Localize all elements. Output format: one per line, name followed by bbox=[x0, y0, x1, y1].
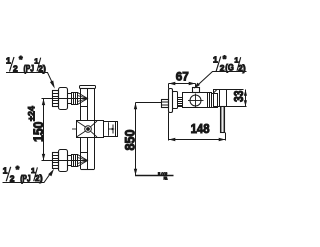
side view: lever handle bar bbox=[221, 107, 225, 133]
top cap slab bbox=[80, 86, 96, 89]
label PJ bottom-left bbox=[3, 164, 55, 183]
rings bbox=[72, 155, 78, 167]
front view: bottom inlet fitting bbox=[53, 150, 88, 172]
rings bbox=[72, 93, 78, 105]
label G top-right bbox=[194, 54, 247, 89]
dimension 150±24 vertical bbox=[27, 99, 88, 161]
side view: wall nut bbox=[162, 100, 169, 108]
front view: handle knob bbox=[104, 122, 118, 137]
svg-text:FIN.: FIN. bbox=[164, 176, 168, 181]
side view: valve body bbox=[183, 88, 212, 108]
flange bbox=[59, 150, 68, 172]
front view: top inlet fitting bbox=[53, 88, 88, 110]
nut (ribbed) bbox=[53, 91, 59, 107]
label PJ top-left bbox=[6, 55, 55, 89]
dimension 33 bbox=[227, 90, 248, 107]
cartridge circle with crosshair bbox=[190, 95, 201, 106]
side view: adapter + lever mount bbox=[212, 90, 227, 108]
svg-text:(PJ: (PJ bbox=[20, 173, 31, 183]
dimension 148 bbox=[169, 113, 226, 142]
svg-text:1: 1 bbox=[213, 55, 218, 65]
floor line bbox=[135, 172, 174, 181]
side view: wall flange bbox=[169, 89, 178, 113]
svg-text:1: 1 bbox=[6, 56, 11, 66]
svg-text:*: * bbox=[19, 55, 23, 65]
svg-text:850: 850 bbox=[123, 130, 138, 151]
svg-text:): ) bbox=[40, 173, 43, 183]
cone bbox=[78, 93, 88, 105]
side view: inlet thread rings bbox=[178, 98, 183, 107]
neck bbox=[68, 94, 72, 104]
svg-text:148: 148 bbox=[191, 121, 210, 136]
front view: vertical body tube bbox=[80, 86, 96, 170]
nut (ribbed) bbox=[53, 153, 59, 169]
svg-text:2: 2 bbox=[10, 173, 15, 183]
flange bbox=[59, 88, 68, 110]
outlet port on top bbox=[193, 88, 200, 93]
svg-text:1: 1 bbox=[3, 165, 8, 175]
dimension 67 bbox=[169, 69, 196, 88]
svg-text:33: 33 bbox=[231, 91, 246, 103]
dimension 850 vertical bbox=[123, 103, 162, 176]
svg-text:67: 67 bbox=[176, 69, 189, 83]
svg-text:*: * bbox=[16, 164, 20, 174]
front view: center valve body bbox=[72, 121, 104, 138]
neck bbox=[68, 156, 72, 166]
svg-text:): ) bbox=[43, 63, 46, 73]
cone bbox=[78, 155, 88, 167]
